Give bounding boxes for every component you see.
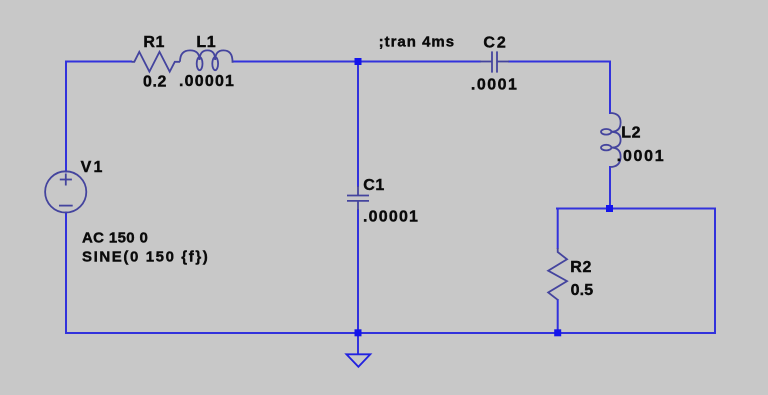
svg-text:.0001: .0001 [471,77,519,94]
svg-text:.00001: .00001 [363,208,419,225]
svg-text:V1: V1 [81,159,105,176]
svg-text:C1: C1 [363,177,385,194]
svg-text:R2: R2 [570,259,592,276]
svg-text:0.2: 0.2 [143,74,167,91]
svg-text:R1: R1 [143,34,165,51]
svg-text:.00001: .00001 [179,73,235,90]
svg-text:;tran 4ms: ;tran 4ms [379,34,456,51]
svg-text:SINE(0 150 {f}): SINE(0 150 {f}) [82,249,209,266]
svg-text:AC 150 0: AC 150 0 [82,230,148,247]
svg-text:.0001: .0001 [617,148,666,165]
svg-text:C2: C2 [483,35,507,52]
svg-text:L1: L1 [196,34,216,51]
svg-text:0.5: 0.5 [571,282,594,299]
svg-text:L2: L2 [621,124,641,141]
